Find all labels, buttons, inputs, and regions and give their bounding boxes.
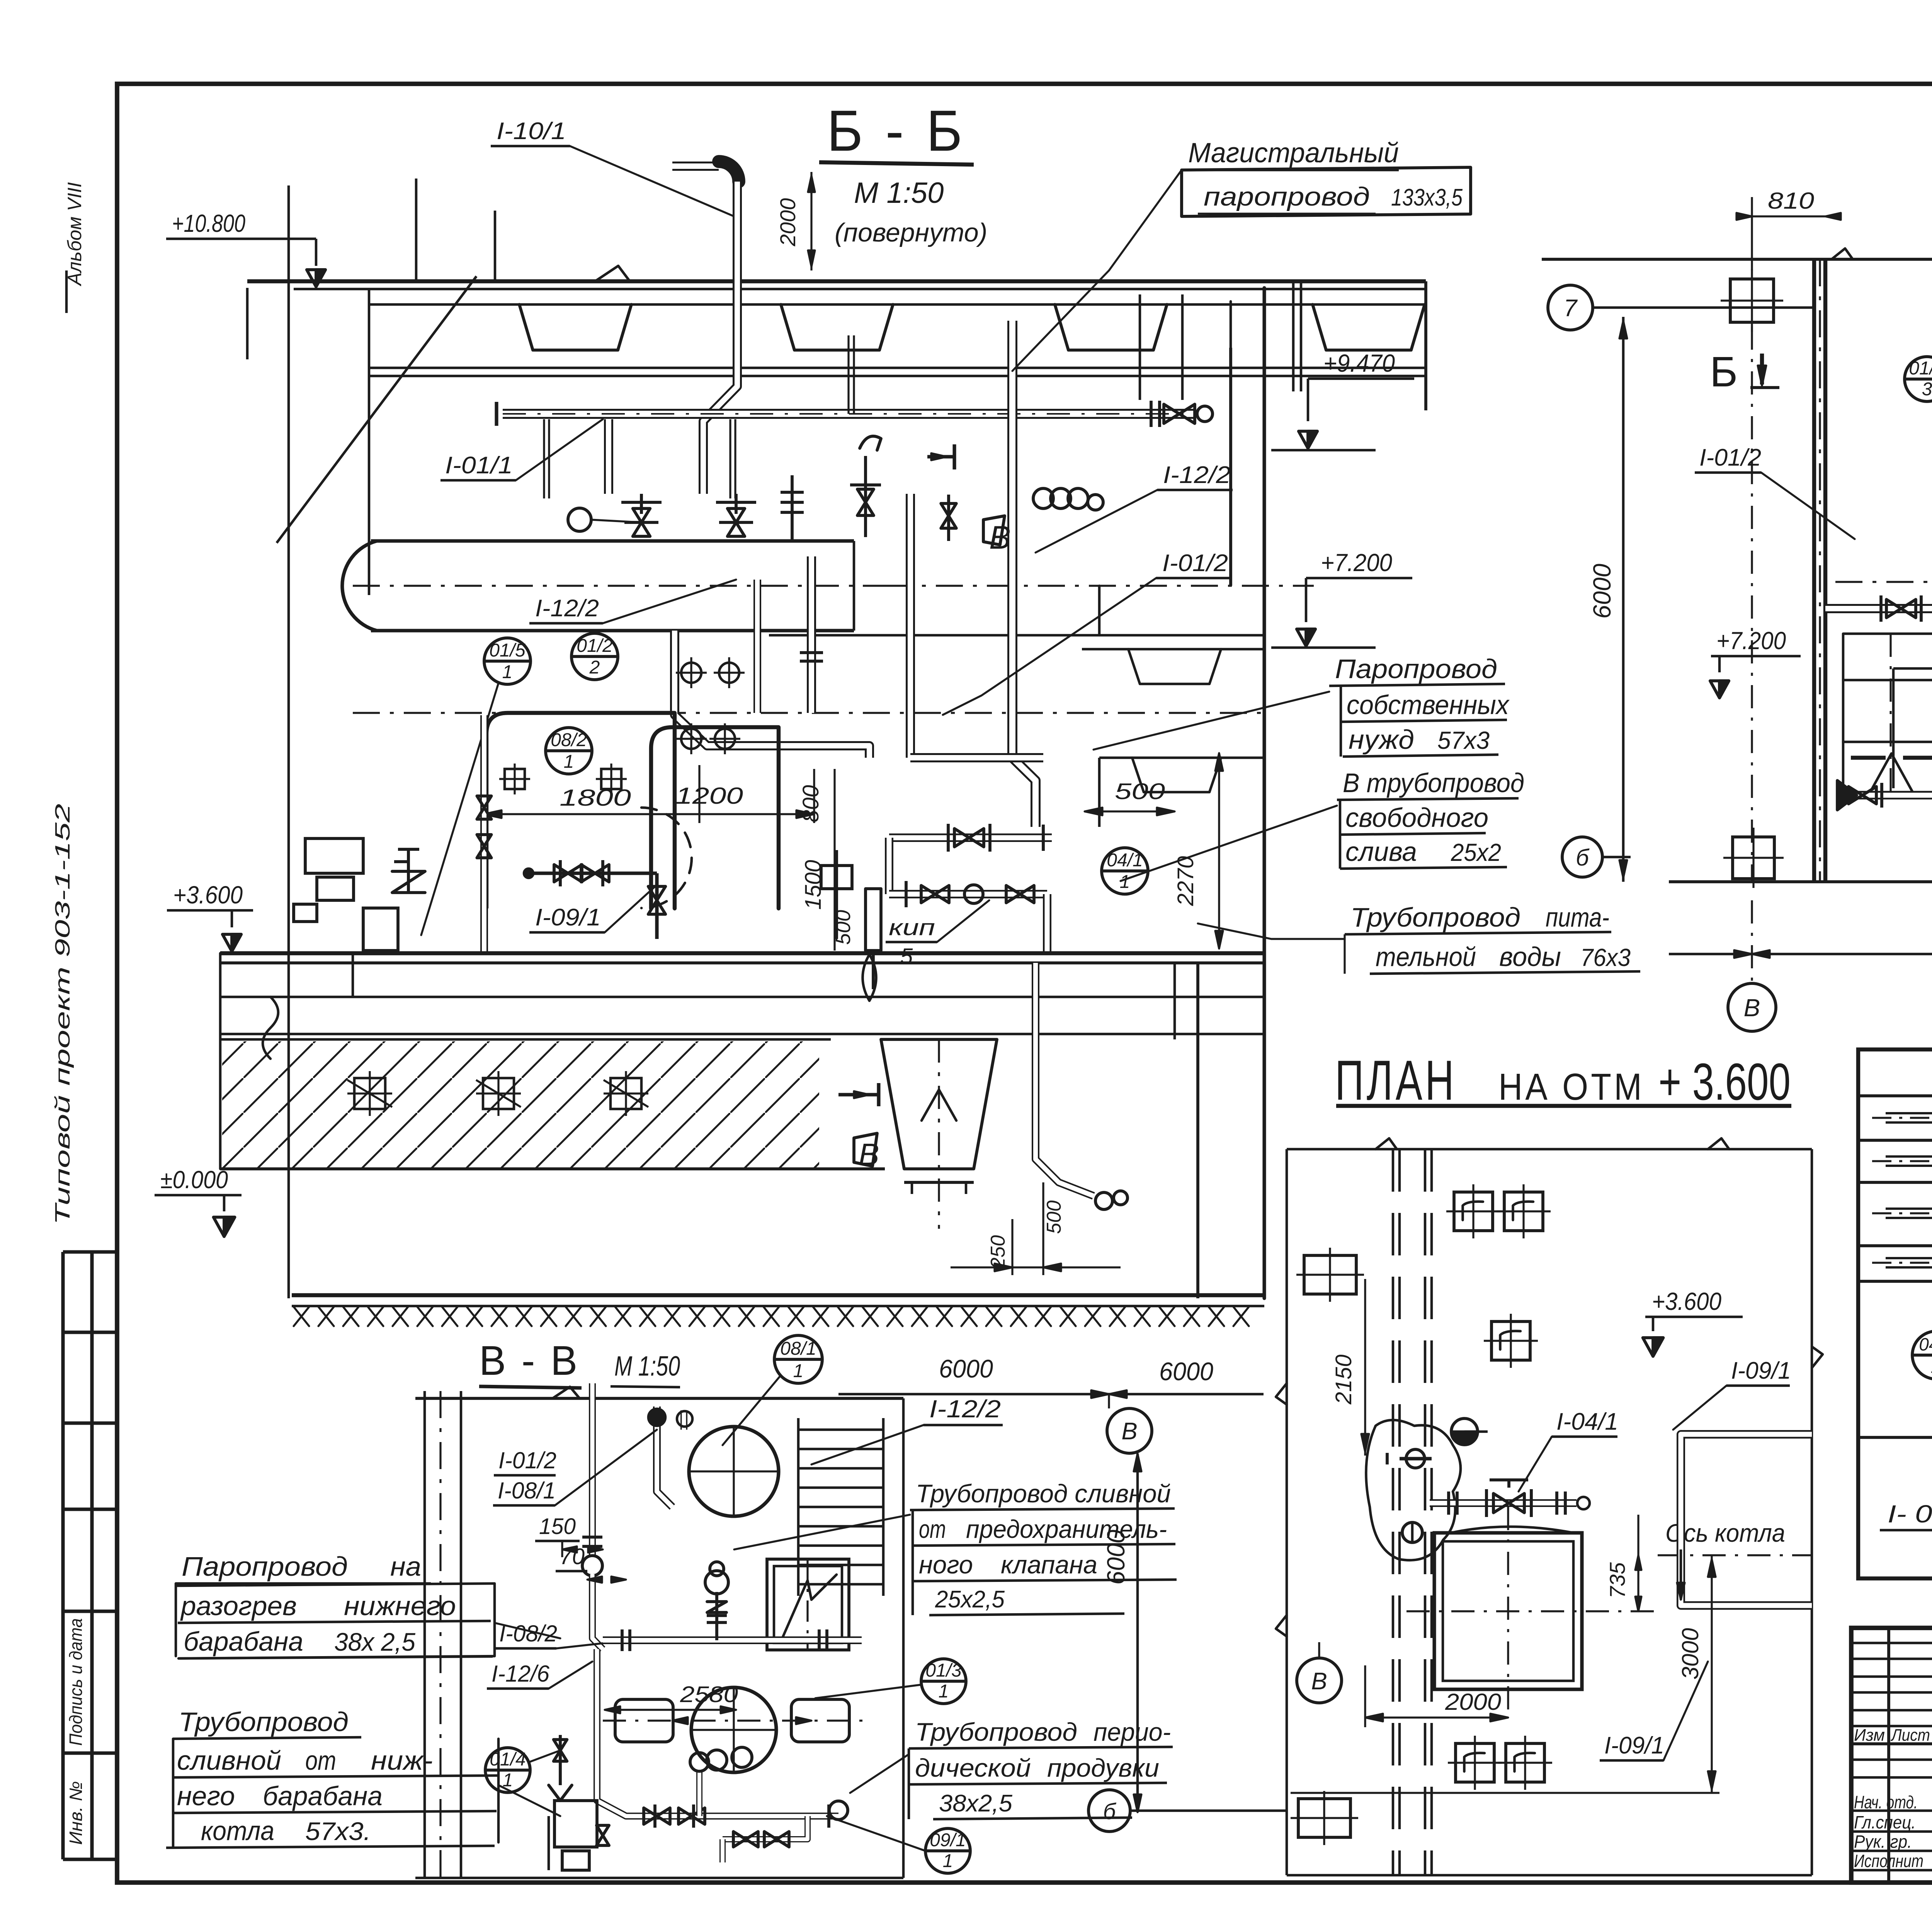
svg-text:2150: 2150 bbox=[1331, 1354, 1356, 1405]
svg-text:б: б bbox=[1103, 1799, 1117, 1824]
dimension 500 right bbox=[1085, 810, 1175, 812]
ground line bbox=[292, 1293, 1264, 1297]
svg-text:Б - Б: Б - Б bbox=[827, 98, 966, 163]
svg-text:воды: воды bbox=[1499, 942, 1561, 972]
left pump unit bbox=[305, 838, 363, 873]
svg-text:6000: 6000 bbox=[1588, 563, 1616, 619]
plan dashed steam line bbox=[1851, 756, 1932, 760]
svg-text:150: 150 bbox=[539, 1514, 576, 1539]
title block outer bbox=[1851, 1628, 1932, 1883]
bunker band with diagonal hatch bbox=[220, 1038, 831, 1041]
svg-text:него: него bbox=[177, 1781, 235, 1811]
node circle б bbox=[1562, 837, 1602, 877]
VV lower drum bbox=[691, 1687, 776, 1772]
svg-text:Изм: Изм bbox=[1854, 1726, 1885, 1745]
gauge fittings row bbox=[791, 475, 794, 541]
plan bottom wall line bbox=[1669, 880, 1932, 883]
riser pipe I-10/1 bbox=[672, 162, 719, 171]
section arrow mark В top bbox=[952, 444, 956, 469]
svg-text:ниж-: ниж- bbox=[371, 1745, 433, 1776]
svg-text:2000: 2000 bbox=[776, 198, 800, 247]
svg-text:Трубопровод: Трубопровод bbox=[179, 1707, 349, 1737]
horizontal gridlines right of drum bbox=[885, 585, 1314, 587]
VV circle 01/4 bbox=[485, 1748, 530, 1793]
svg-text:800: 800 bbox=[798, 785, 823, 823]
hanger rods bbox=[847, 335, 849, 414]
svg-text:1: 1 bbox=[502, 662, 513, 682]
VV left small valves bbox=[559, 1735, 562, 1785]
VV circle 09/1 bbox=[925, 1828, 970, 1873]
svg-text:5: 5 bbox=[900, 944, 913, 969]
drum right side panel joins bbox=[853, 541, 855, 631]
svg-text:перио-: перио- bbox=[1094, 1718, 1171, 1746]
svg-text:01/5: 01/5 bbox=[489, 640, 526, 661]
svg-text:Лист: Лист bbox=[1890, 1726, 1930, 1745]
svg-text:от: от bbox=[305, 1745, 336, 1776]
svg-text:I-12/2: I-12/2 bbox=[535, 595, 599, 622]
position circles bbox=[484, 638, 531, 684]
plan36 circle В bbox=[1297, 1658, 1342, 1703]
column stubs above ceiling bbox=[415, 179, 418, 281]
ash bunker trapezoid bbox=[881, 1039, 997, 1169]
svg-text:Гл.спец.: Гл.спец. bbox=[1854, 1812, 1916, 1832]
steam pipe at +9.470 bbox=[503, 409, 1196, 419]
dim 2000 at riser bbox=[810, 172, 812, 270]
svg-text:+ 3.600: + 3.600 bbox=[1658, 1053, 1791, 1111]
VV window square bbox=[767, 1559, 849, 1650]
VV circle 01/3 bbox=[921, 1659, 966, 1704]
hatch support squares bbox=[354, 1078, 385, 1109]
svg-text:I-12/6: I-12/6 bbox=[492, 1661, 550, 1687]
riser pipe 2 bbox=[807, 556, 816, 713]
plan36 dim 3000 bbox=[1711, 1555, 1713, 1793]
svg-text:тельной: тельной bbox=[1376, 942, 1476, 972]
svg-text:25х2,5: 25х2,5 bbox=[935, 1586, 1005, 1613]
svg-text:01/2: 01/2 bbox=[1909, 358, 1932, 379]
svg-text:М 1:50: М 1:50 bbox=[614, 1351, 680, 1382]
gauge glass device bbox=[835, 850, 838, 939]
svg-text:продувки: продувки bbox=[1047, 1753, 1159, 1782]
plan36 dim 2000 bbox=[1365, 1716, 1508, 1718]
svg-text:В трубопровод: В трубопровод bbox=[1343, 768, 1524, 798]
svg-text:09/1: 09/1 bbox=[930, 1830, 966, 1850]
upper wall columns bbox=[1229, 348, 1232, 586]
descending main pipe right bbox=[1012, 321, 1036, 827]
VV vertical dim 6000 bbox=[1136, 1454, 1139, 1812]
svg-text:1200: 1200 bbox=[675, 783, 743, 809]
riser pipe 3 bbox=[753, 580, 761, 713]
legend symbol row3: sliding support bbox=[1886, 1207, 1932, 1219]
roof beams bbox=[519, 304, 631, 350]
plan36 dim 2150 bbox=[1364, 1279, 1366, 1456]
svg-text:клапана: клапана bbox=[1001, 1550, 1097, 1579]
column right bbox=[1196, 963, 1199, 1298]
VV pipe down left bbox=[589, 1383, 596, 1557]
svg-text:Инв. №: Инв. № bbox=[66, 1781, 86, 1845]
svg-text:+3.600: +3.600 bbox=[173, 881, 243, 909]
wall double line bbox=[1812, 259, 1816, 882]
svg-text:I-12/2: I-12/2 bbox=[929, 1395, 1001, 1423]
vertical dim 6000 left bbox=[1622, 317, 1625, 882]
svg-text:Трубопровод: Трубопровод bbox=[1350, 902, 1520, 932]
legend table box bbox=[1858, 1049, 1932, 1578]
dimension 1800/1200 bbox=[484, 813, 814, 815]
svg-text:Рук. гр.: Рук. гр. bbox=[1854, 1832, 1912, 1852]
svg-text:1: 1 bbox=[1120, 872, 1130, 892]
svg-text:3000: 3000 bbox=[1677, 1628, 1703, 1679]
VV side headers bbox=[615, 1699, 673, 1742]
svg-text:б: б bbox=[1576, 845, 1590, 871]
slab underside lines bbox=[369, 367, 1426, 369]
svg-text:I-09/1: I-09/1 bbox=[1731, 1357, 1791, 1384]
plan left bunker bbox=[1843, 634, 1932, 792]
svg-text:I-08/1: I-08/1 bbox=[498, 1478, 556, 1503]
svg-text:ного: ного bbox=[919, 1550, 973, 1579]
plan36 cloud bbox=[1366, 1420, 1461, 1560]
svg-text:Паропровод: Паропровод bbox=[1335, 654, 1497, 684]
svg-text:+7.200: +7.200 bbox=[1321, 549, 1392, 577]
svg-text:собственных: собственных bbox=[1347, 690, 1510, 720]
svg-text:1800: 1800 bbox=[560, 785, 631, 811]
svg-text:Магистральный: Магистральный bbox=[1188, 138, 1399, 168]
svg-text:70: 70 bbox=[560, 1544, 585, 1569]
VV stairs bbox=[797, 1418, 800, 1596]
svg-text:Б: Б bbox=[1710, 348, 1738, 396]
riser pipe from drum to steam header bbox=[675, 631, 869, 758]
margin column table bbox=[61, 1252, 65, 1859]
svg-text:25х2: 25х2 bbox=[1451, 838, 1501, 866]
drop pipe from steam line bbox=[604, 419, 613, 494]
axis circles В Б bbox=[1728, 983, 1776, 1031]
svg-text:М 1:50: М 1:50 bbox=[854, 177, 944, 209]
svg-text:57х3: 57х3 bbox=[1437, 726, 1490, 754]
VV drawing frame bbox=[423, 1391, 426, 1878]
boiler front panels bbox=[486, 713, 675, 908]
column axis line left bbox=[287, 185, 290, 1298]
svg-text:I-08/2: I-08/2 bbox=[499, 1621, 557, 1646]
svg-text:Трубопровод сливной: Трубопровод сливной bbox=[916, 1479, 1171, 1508]
svg-text:6000: 6000 bbox=[1102, 1529, 1130, 1585]
valve assemblies on drum top bbox=[640, 494, 643, 514]
boiler upper drum (side view) bbox=[342, 541, 377, 631]
svg-text:на: на bbox=[390, 1551, 421, 1582]
plan left axis dash-dot bbox=[1751, 327, 1753, 881]
svg-text:08/2: 08/2 bbox=[551, 730, 587, 750]
plan36 column squares bbox=[1304, 1255, 1356, 1294]
svg-text:от: от bbox=[919, 1515, 946, 1543]
svg-text:01/3: 01/3 bbox=[925, 1660, 962, 1681]
svg-text:котла: котла bbox=[201, 1816, 274, 1846]
title block top rows bbox=[1851, 1642, 1932, 1645]
right building structures bbox=[1262, 288, 1266, 1298]
svg-text:1: 1 bbox=[564, 752, 574, 772]
circle 08/1 bbox=[774, 1335, 822, 1383]
svg-text:500: 500 bbox=[1043, 1201, 1065, 1234]
left drain pipe with valves bbox=[480, 715, 488, 953]
circle В axis bbox=[1107, 1408, 1152, 1453]
svg-text:слива: слива bbox=[1345, 837, 1417, 867]
svg-text:разогрев: разогрев bbox=[180, 1591, 297, 1621]
VV blowdown piping bottom bbox=[597, 1649, 838, 1816]
svg-text:6000: 6000 bbox=[939, 1354, 993, 1383]
svg-text:133х3,5: 133х3,5 bbox=[1391, 184, 1463, 211]
top break line bbox=[1542, 258, 1932, 261]
svg-text:I- 04: I- 04 bbox=[1888, 1500, 1932, 1528]
break squiggle left wall bbox=[219, 953, 222, 1169]
svg-text:76х3: 76х3 bbox=[1580, 944, 1631, 971]
ceiling cut diagonal bbox=[277, 276, 476, 543]
svg-text:Паропровод: Паропровод bbox=[182, 1551, 348, 1582]
svg-text:В: В bbox=[1744, 994, 1760, 1022]
plan36 wall dashed bbox=[1392, 1149, 1395, 1875]
svg-text:нужд: нужд bbox=[1349, 724, 1414, 755]
plan36 frame bbox=[1287, 1148, 1812, 1151]
svg-text:04/1: 04/1 bbox=[1919, 1334, 1932, 1354]
dashed bypass arc bbox=[641, 808, 692, 908]
svg-text:свободного: свободного bbox=[1345, 803, 1488, 833]
wall axis column (7) bbox=[1548, 285, 1593, 330]
VV main steam header pipe bbox=[603, 1636, 862, 1644]
svg-text:57х3.: 57х3. bbox=[305, 1817, 371, 1845]
svg-text:I-01/1: I-01/1 bbox=[445, 452, 513, 479]
svg-text:+9.470: +9.470 bbox=[1323, 349, 1395, 377]
plan36 pump circle bbox=[1451, 1418, 1478, 1445]
svg-text:паропровод: паропровод bbox=[1204, 182, 1370, 211]
svg-text:ПЛАН: ПЛАН bbox=[1335, 1049, 1457, 1112]
plan pipes I-01/2 bbox=[1825, 604, 1932, 613]
signature rows bbox=[1851, 1759, 1932, 1761]
svg-text:Исполнит: Исполнит bbox=[1854, 1851, 1923, 1871]
plan pos circles bbox=[1905, 357, 1932, 401]
svg-text:3: 3 bbox=[1922, 379, 1932, 400]
plan36 support squares bbox=[1454, 1192, 1493, 1231]
title block verticals left bbox=[1887, 1628, 1890, 1883]
dims 250/500 bottom bbox=[1011, 1219, 1013, 1275]
VV upper drum bbox=[689, 1427, 779, 1516]
legend symbol row2: rigid hanger bbox=[1886, 1155, 1932, 1167]
svg-text:1: 1 bbox=[939, 1681, 949, 1702]
ground hatch bbox=[294, 1307, 1249, 1326]
legend rows bbox=[1858, 1139, 1932, 1142]
svg-text:2270: 2270 bbox=[1173, 856, 1198, 906]
VV riser pipes top bbox=[653, 1406, 661, 1445]
svg-text:(повернуто): (повернуто) bbox=[835, 218, 987, 247]
big vertical pipe I-12/2 right bbox=[906, 494, 915, 758]
svg-text:НА ОТМ: НА ОТМ bbox=[1498, 1066, 1645, 1108]
svg-text:нижнего: нижнего bbox=[344, 1591, 456, 1621]
valve on steam pipe bbox=[1150, 401, 1153, 427]
axis square top left bbox=[1730, 279, 1774, 322]
svg-text:барабана: барабана bbox=[184, 1626, 303, 1656]
panel fittings bbox=[681, 663, 701, 683]
plan lower pipe run bbox=[1851, 791, 1932, 799]
floor at +3.600 bbox=[220, 951, 1264, 955]
svg-text:сливной: сливной bbox=[177, 1745, 281, 1776]
svg-text:±0.000: ±0.000 bbox=[160, 1166, 228, 1194]
svg-text:Подпись и дата: Подпись и дата bbox=[66, 1618, 86, 1746]
svg-text:810: 810 bbox=[1768, 188, 1814, 214]
svg-text:I-09/1: I-09/1 bbox=[1604, 1732, 1664, 1759]
svg-text:1: 1 bbox=[793, 1361, 804, 1381]
svg-text:7: 7 bbox=[1564, 295, 1578, 321]
svg-text:1: 1 bbox=[943, 1851, 953, 1871]
plan bottom dim 6000x2 bbox=[1669, 953, 1932, 956]
plan36 boiler square bbox=[1434, 1533, 1582, 1689]
legend pos circle example bbox=[1912, 1331, 1932, 1379]
svg-text:I-01/2: I-01/2 bbox=[498, 1447, 556, 1473]
svg-text:+10.800: +10.800 bbox=[172, 209, 245, 237]
svg-text:I-10/1: I-10/1 bbox=[497, 118, 566, 145]
svg-text:Типовой проект 903-1-152: Типовой проект 903-1-152 bbox=[51, 804, 74, 1225]
svg-text:2000: 2000 bbox=[1445, 1689, 1501, 1715]
svg-text:Трубопровод: Трубопровод bbox=[915, 1718, 1077, 1746]
svg-text:04/1: 04/1 bbox=[1107, 850, 1143, 871]
axis square bottom bbox=[1733, 837, 1774, 879]
right valve manifold bbox=[889, 833, 1052, 842]
plan36 pipe I-09 C-shape bbox=[1681, 1434, 1812, 1605]
svg-text:В: В bbox=[1311, 1668, 1327, 1695]
svg-text:38х2,5: 38х2,5 bbox=[939, 1790, 1013, 1817]
svg-text:дической: дической bbox=[915, 1753, 1031, 1782]
legend symbol row1: spring hanger bbox=[1886, 1112, 1932, 1124]
svg-text:В - В: В - В bbox=[479, 1337, 580, 1384]
svg-text:38х 2,5: 38х 2,5 bbox=[334, 1628, 415, 1656]
VV circle б bbox=[1088, 1790, 1130, 1832]
plan36 valve assembly I-04/1 bbox=[1430, 1499, 1577, 1507]
right wall verticals bbox=[1424, 281, 1427, 410]
svg-text:2: 2 bbox=[589, 657, 600, 678]
plan36 wall pipe fittings bbox=[1400, 1457, 1432, 1460]
blowdown valves bottom bbox=[533, 871, 657, 875]
svg-text:08/1: 08/1 bbox=[780, 1338, 816, 1359]
svg-text:+3.600: +3.600 bbox=[1652, 1287, 1721, 1315]
section mark В lower bbox=[838, 1093, 879, 1096]
svg-text:Нач. отд.: Нач. отд. bbox=[1854, 1792, 1918, 1812]
svg-text:кип: кип bbox=[889, 915, 935, 940]
svg-text:I-01/2: I-01/2 bbox=[1162, 550, 1228, 577]
svg-text:В: В bbox=[1121, 1418, 1137, 1445]
svg-text:I-04/1: I-04/1 bbox=[1556, 1408, 1618, 1435]
svg-text:барабана: барабана bbox=[263, 1781, 383, 1811]
beam under floor bbox=[220, 996, 1264, 998]
svg-text:735: 735 bbox=[1605, 1562, 1629, 1598]
legend symbol row4: fixed support bbox=[1886, 1257, 1932, 1269]
plan36 dim 735 bbox=[1637, 1515, 1639, 1611]
VV safety valve assembly bbox=[715, 1592, 718, 1640]
pressure tap cluster bbox=[1033, 488, 1053, 509]
svg-text:I-12/2: I-12/2 bbox=[1163, 462, 1231, 488]
drain pipe through bunker level bbox=[1036, 963, 1094, 1196]
svg-text:I-09/1: I-09/1 bbox=[535, 904, 601, 931]
svg-text:6000: 6000 bbox=[1159, 1357, 1213, 1386]
svg-text:01/4: 01/4 bbox=[490, 1749, 526, 1770]
svg-text:01/2: 01/2 bbox=[577, 636, 612, 656]
svg-text:пита-: пита- bbox=[1546, 902, 1609, 932]
safety valve with lever bbox=[864, 456, 867, 537]
ceiling slab at +10.800 bbox=[247, 279, 1426, 283]
